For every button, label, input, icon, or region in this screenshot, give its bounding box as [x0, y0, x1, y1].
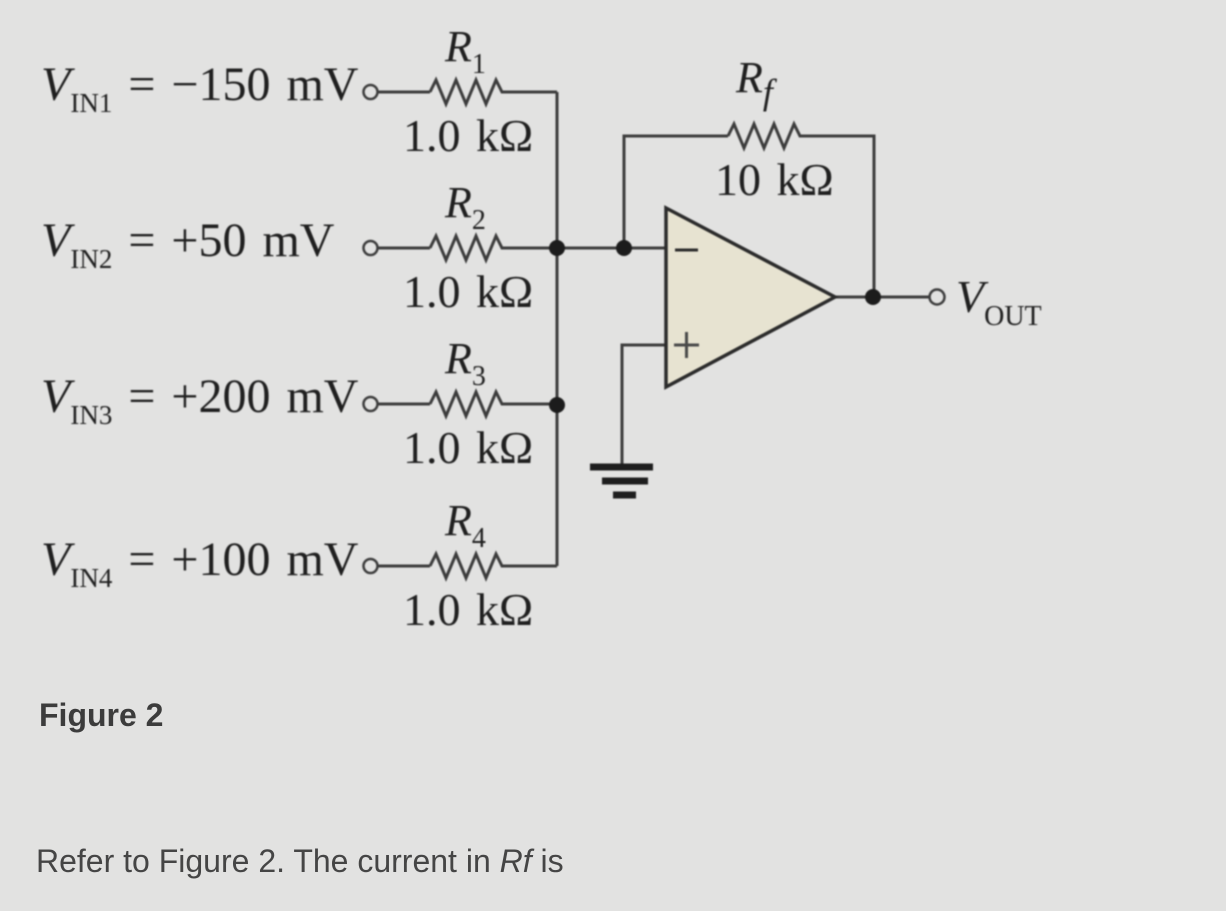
svg-text:R1: R1	[444, 22, 486, 80]
svg-text:R4: R4	[444, 496, 486, 554]
svg-text:1.0 kΩ: 1.0 kΩ	[403, 584, 533, 635]
svg-text:1.0 kΩ: 1.0 kΩ	[403, 422, 533, 473]
svg-text:Rf: Rf	[735, 53, 778, 112]
svg-text:VIN1 = −150 mV: VIN1 = −150 mV	[41, 58, 359, 118]
svg-text:R2: R2	[444, 178, 486, 236]
svg-text:R3: R3	[444, 334, 486, 392]
svg-text:VIN3 = +200 mV: VIN3 = +200 mV	[41, 370, 359, 430]
svg-text:1.0 kΩ: 1.0 kΩ	[403, 110, 533, 161]
svg-text:1.0 kΩ: 1.0 kΩ	[403, 266, 533, 317]
svg-text:VOUT: VOUT	[956, 271, 1042, 332]
svg-text:VIN4 = +100 mV: VIN4 = +100 mV	[41, 533, 359, 593]
svg-text:VIN2 = +50 mV: VIN2 = +50 mV	[41, 214, 335, 274]
svg-text:10 kΩ: 10 kΩ	[715, 154, 834, 205]
